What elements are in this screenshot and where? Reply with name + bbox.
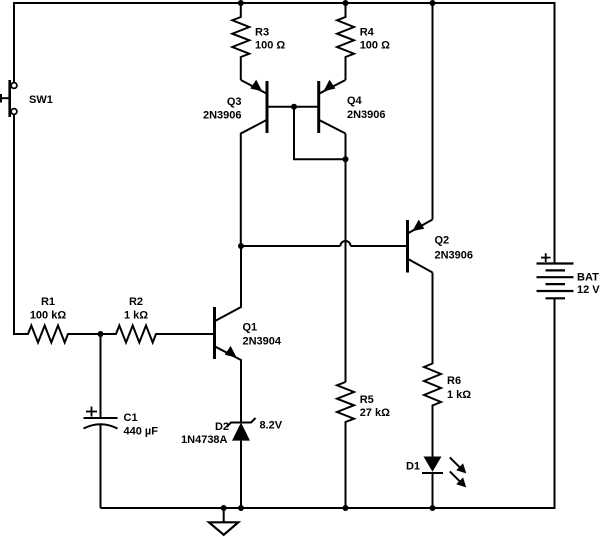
capacitor C1 [84, 334, 118, 508]
svg-text:2N3906: 2N3906 [203, 110, 242, 122]
resistor R1 [14, 326, 101, 343]
LED D1 emission arrow 2 [450, 471, 466, 487]
wire Q2 base left segment [241, 245, 341, 247]
node Q3/Q4 base junction [291, 104, 297, 110]
svg-text:100 kΩ: 100 kΩ [30, 309, 67, 321]
wire top rail [13, 2, 555, 4]
resistor R6 [424, 364, 441, 457]
transistor Q2 [408, 220, 433, 273]
svg-text:BAT: BAT [577, 271, 599, 283]
svg-text:SW1: SW1 [29, 94, 53, 106]
node bottom rail ground [221, 505, 227, 511]
node junction R1/R2/C1 [98, 331, 104, 337]
wire Q2 collector down to R6 [432, 273, 434, 365]
svg-text:Q3: Q3 [227, 96, 242, 108]
resistor R2 [101, 326, 214, 343]
wire Q2 emitter to top rail [432, 2, 434, 220]
svg-text:Q2: Q2 [435, 235, 450, 247]
svg-text:2N3906: 2N3906 [347, 109, 386, 121]
node Q4 collector junction [343, 156, 349, 162]
svg-text:R2: R2 [129, 296, 143, 308]
node top rail Q2 emitter [430, 0, 436, 6]
resistor R4 [337, 3, 354, 80]
node top rail R3 [238, 0, 244, 6]
wire Q4 collector down to R5 [345, 134, 347, 383]
svg-text:100 Ω: 100 Ω [360, 40, 390, 52]
transistor Q3 [241, 80, 319, 246]
svg-text:440 µF: 440 µF [124, 426, 159, 438]
svg-text:1 kΩ: 1 kΩ [447, 389, 471, 401]
wire right vertical lower from battery [554, 298, 556, 509]
svg-text:1 kΩ: 1 kΩ [124, 309, 148, 321]
svg-text:Q1: Q1 [243, 321, 258, 333]
svg-text:D1: D1 [406, 461, 420, 473]
svg-text:R5: R5 [360, 394, 374, 406]
wire cross-couple base to Q4 collector [294, 107, 346, 160]
node top rail R4 [343, 0, 349, 6]
wire bottom rail [101, 507, 555, 509]
svg-text:8.2V: 8.2V [260, 420, 283, 432]
svg-text:R3: R3 [255, 27, 269, 39]
svg-text:27 kΩ: 27 kΩ [360, 407, 390, 419]
svg-text:R4: R4 [360, 27, 375, 39]
svg-text:R1: R1 [41, 296, 55, 308]
wire left vertical upper [13, 2, 15, 83]
wire left vertical lower [13, 114, 15, 335]
wire hop over vertical net [341, 241, 351, 246]
wire right vertical upper to battery [554, 2, 556, 264]
LED D1 [422, 457, 443, 509]
node bottom rail D1 [430, 505, 436, 511]
node Q1 collector junction [238, 243, 244, 249]
wire Q2 base right segment [351, 245, 407, 247]
svg-text:D2: D2 [215, 421, 229, 433]
ground [209, 508, 238, 535]
svg-text:2N3906: 2N3906 [435, 249, 474, 261]
node bottom rail R5 [343, 505, 349, 511]
svg-text:1N4738A: 1N4738A [181, 434, 228, 446]
svg-text:C1: C1 [124, 412, 138, 424]
resistor R3 [232, 3, 249, 80]
transistor Q1 [215, 246, 242, 422]
svg-text:12 V: 12 V [577, 284, 600, 296]
svg-text:100 Ω: 100 Ω [255, 40, 285, 52]
transistor Q4 [319, 80, 346, 134]
node bottom rail D2 [238, 505, 244, 511]
battery BAT [537, 253, 574, 298]
LED D1 emission arrow 1 [450, 457, 466, 473]
svg-text:Q4: Q4 [347, 95, 363, 107]
svg-text:2N3904: 2N3904 [243, 335, 282, 347]
zener diode D2 [227, 418, 256, 508]
svg-text:R6: R6 [447, 375, 461, 387]
resistor R5 [337, 382, 354, 508]
switch SW1 [1, 80, 17, 117]
